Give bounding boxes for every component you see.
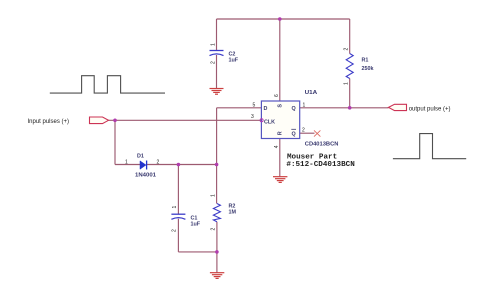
output waveform [393, 134, 466, 159]
svg-text:250k: 250k [362, 66, 374, 72]
svg-text:3: 3 [251, 114, 254, 120]
svg-text:1uF: 1uF [191, 222, 201, 228]
svg-text:1uF: 1uF [229, 58, 239, 64]
wire top rail [217, 18, 350, 20]
ground under R2 [210, 273, 224, 279]
wire input to CLK [109, 119, 262, 121]
ground under U1A [273, 177, 287, 183]
svg-text:2: 2 [157, 160, 160, 166]
svg-text:CD4013BCN: CD4013BCN [305, 142, 339, 148]
svg-text:2: 2 [344, 48, 350, 51]
svg-text:R1: R1 [362, 58, 369, 64]
svg-text:1N4001: 1N4001 [135, 172, 156, 178]
input waveform [50, 76, 165, 93]
svg-text:2: 2 [211, 228, 217, 231]
svg-text:1: 1 [211, 194, 217, 197]
svg-text:6: 6 [274, 94, 280, 97]
svg-text:1: 1 [303, 102, 306, 108]
junction C1 branch [177, 163, 181, 167]
junction D/R2 branch [215, 163, 219, 167]
svg-text:1: 1 [210, 43, 216, 46]
junction bottom ground [215, 250, 219, 254]
wire ground drop [216, 252, 218, 273]
wire C1 bottom [177, 219, 179, 252]
ground under C2 [210, 89, 224, 95]
capacitor C2 [210, 43, 239, 64]
svg-text:Q: Q [292, 132, 296, 138]
svg-text:U1A: U1A [305, 90, 318, 96]
svg-text:Input pulses (+): Input pulses (+) [28, 119, 70, 125]
diode D1 [125, 154, 160, 179]
wire D pin [217, 107, 262, 109]
input port connector [90, 117, 109, 124]
no-connect X [314, 130, 320, 136]
wire input drop [114, 120, 116, 164]
svg-text:CLK: CLK [264, 120, 275, 126]
svg-text:D: D [264, 106, 268, 112]
svg-text:R: R [278, 131, 284, 135]
clock bubble [260, 119, 263, 122]
output port connector [389, 104, 407, 110]
junction R1 output [348, 106, 352, 110]
junction input split [113, 119, 117, 123]
svg-text:2: 2 [210, 61, 216, 64]
svg-text:1: 1 [344, 82, 350, 85]
wire to diode anode [115, 164, 140, 166]
wire R2 bottom [216, 222, 218, 252]
resistor R2 [211, 194, 237, 231]
resistor R1 [344, 48, 374, 86]
svg-text:2: 2 [302, 127, 305, 133]
svg-text:Q: Q [292, 106, 296, 112]
wire R1 top drop [349, 19, 351, 54]
junction top rail [278, 17, 282, 21]
wire R1 bottom [349, 79, 351, 108]
svg-text:D1: D1 [137, 154, 144, 160]
svg-text:4: 4 [274, 145, 280, 148]
wire reset pin drop [279, 139, 281, 177]
svg-text:1: 1 [125, 160, 128, 166]
wire diode cathode to junction [147, 164, 217, 166]
flip-flop U1A box [261, 101, 299, 139]
wire C2 top drop [216, 19, 218, 51]
wire Q output [300, 107, 389, 109]
capacitor C1 [171, 206, 200, 233]
wire Qbar stub [300, 132, 315, 134]
wire set pin drop [279, 19, 281, 101]
svg-text:#:512-CD4013BCN: #:512-CD4013BCN [286, 161, 355, 169]
svg-text:5: 5 [253, 102, 256, 108]
svg-text:1: 1 [172, 206, 178, 209]
wire bottom horizontal [178, 251, 217, 253]
svg-text:S: S [278, 104, 284, 108]
svg-text:2: 2 [171, 229, 177, 232]
wire D vertical to R2 [216, 108, 218, 204]
wire C2 to ground [216, 55, 218, 89]
wire C1 top drop [177, 165, 179, 215]
svg-text:1M: 1M [229, 210, 237, 216]
svg-text:output pulse (+): output pulse (+) [409, 106, 451, 112]
